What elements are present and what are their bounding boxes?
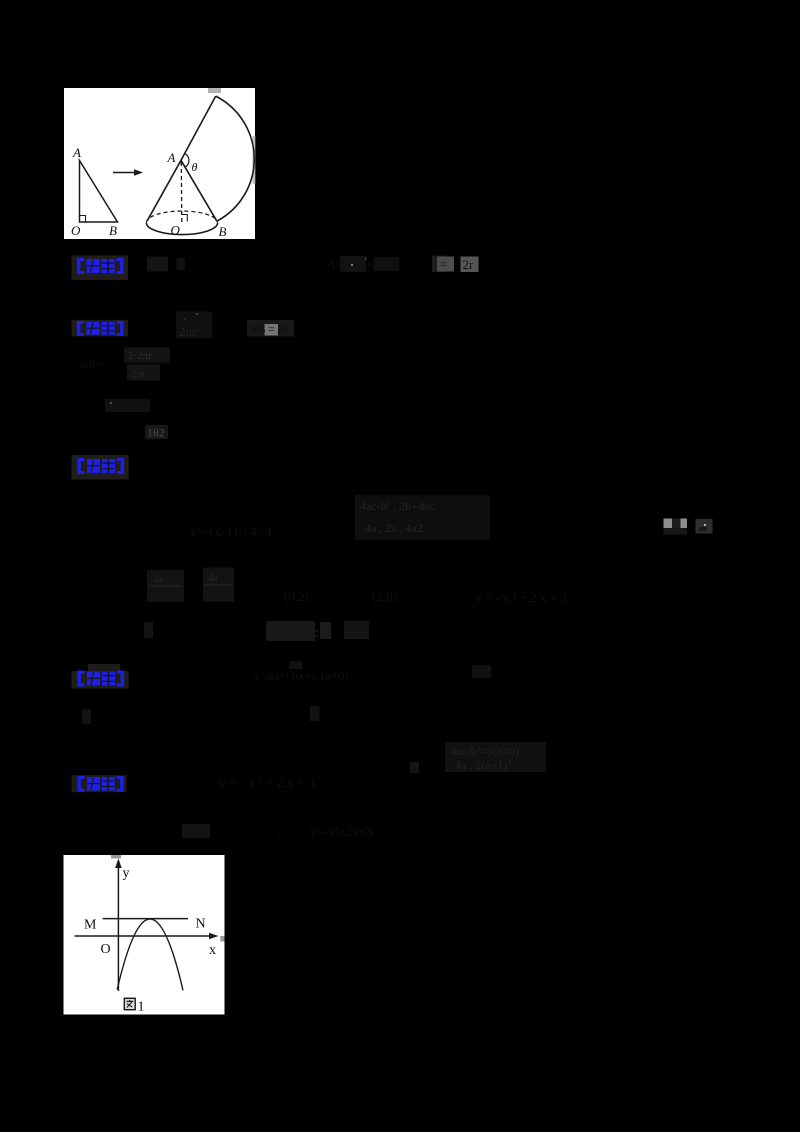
- gray stripe right edge of panel: [252, 136, 255, 184]
- theta angle arc: [185, 154, 189, 168]
- blue tag 3: [72, 455, 129, 480]
- svg-text:θ: θ: [192, 160, 198, 174]
- svg-text:O: O: [71, 223, 81, 238]
- gray smudge top of panel: [208, 88, 221, 93]
- svg-text:2a: 2a: [153, 574, 163, 585]
- svg-text:B: B: [109, 223, 117, 238]
- svg-text:1: 1: [138, 1000, 145, 1015]
- svg-text:y=ax²+bx+c (a≠0): y=ax²+bx+c (a≠0): [254, 668, 349, 683]
- sector arc: [216, 96, 255, 221]
- svg-text:4a , 2a , 4a2: 4a , 2a , 4a2: [365, 521, 423, 535]
- faint row L: [219, 776, 319, 791]
- svg-text:y: y: [123, 866, 130, 881]
- highlighted fragment row B: [247, 320, 294, 337]
- MN line: [103, 918, 188, 920]
- svg-text:y=-(x-1)²+4=3: y=-(x-1)²+4=3: [190, 525, 272, 540]
- svg-text:y=-x²+2x+3: y=-x²+2x+3: [310, 824, 373, 839]
- highlighted formula fragments row A: [351, 256, 479, 273]
- blue tag 5: [72, 775, 127, 792]
- faint text row A: [147, 256, 399, 273]
- faint row F expression: [190, 495, 490, 540]
- arrow: [113, 169, 143, 176]
- svg-text:4ac-b²=3(a≠0): 4ac-b²=3(a≠0): [450, 744, 519, 758]
- svg-text:O: O: [101, 942, 111, 957]
- svg-text:,: ,: [277, 823, 280, 838]
- faint row G: [147, 568, 570, 607]
- svg-text:O: O: [171, 223, 181, 238]
- base ellipse front (solid): [146, 223, 217, 235]
- svg-text:4a: 4a: [208, 573, 218, 584]
- faint row J: [82, 706, 320, 724]
- svg-text:AB = 2r: AB = 2r: [249, 322, 287, 336]
- svg-text:sin =: sin =: [80, 356, 106, 371]
- svg-text:y=-x²+2x+3: y=-x²+2x+3: [475, 591, 570, 606]
- highlighted fragments right of row F: [664, 519, 713, 535]
- faint tall formula row B: [176, 312, 212, 340]
- y axis: [75, 866, 213, 991]
- svg-text:x: x: [209, 943, 216, 958]
- svg-text:(2,0): (2,0): [372, 589, 397, 604]
- cone: [146, 96, 254, 235]
- svg-text:B: B: [219, 224, 227, 239]
- x axis arrowhead: [209, 933, 219, 940]
- base ellipse back (dashed): [146, 211, 217, 223]
- caption tu1: [124, 998, 145, 1015]
- faint row H: [144, 621, 369, 641]
- svg-text::: :: [315, 625, 319, 640]
- small right triangle AOB: [80, 161, 118, 223]
- svg-text:1θ2: 1θ2: [147, 426, 165, 440]
- svg-text:M: M: [84, 918, 97, 933]
- blue tag 2: [72, 320, 129, 337]
- svg-text:A: A: [72, 145, 81, 160]
- svg-text:y=-x²+2x+3: y=-x²+2x+3: [219, 776, 319, 791]
- y axis arrowhead: [115, 859, 122, 869]
- svg-text:(0,2): (0,2): [284, 589, 309, 604]
- svg-text:N: N: [196, 917, 206, 932]
- cone left slant: [147, 160, 181, 221]
- svg-text:A: A: [167, 150, 176, 165]
- dashed axis: [180, 162, 183, 223]
- svg-text:2πr: 2πr: [131, 368, 146, 380]
- svg-text:4a , 2(a+1)²: 4a , 2(a+1)²: [455, 758, 511, 772]
- faint row M: [182, 823, 373, 839]
- faint row I: [254, 661, 491, 683]
- svg-text:2πr: 2πr: [179, 324, 197, 339]
- figure 1 white panel (triangle to cone): [64, 88, 255, 239]
- svg-text:4ac-b² , 2b+4ac: 4ac-b² , 2b+4ac: [360, 499, 435, 513]
- gray smudge right edge of panel 2: [220, 936, 224, 942]
- svg-text:=: =: [440, 257, 447, 272]
- svg-text:2·2πr: 2·2πr: [128, 350, 152, 362]
- blue tag 4: [72, 664, 129, 689]
- gray smudge top of panel 2: [111, 855, 121, 859]
- right-angle mark at O': [182, 215, 188, 222]
- parabola: [117, 919, 183, 990]
- svg-text:2r: 2r: [463, 257, 475, 272]
- faint row K fraction cluster: [410, 742, 546, 773]
- sector radius line up: [181, 96, 216, 160]
- blue tag 1: [72, 256, 129, 281]
- cone right slant / sector radius to B: [181, 160, 217, 221]
- figure 2 white panel (parabola graph): [64, 855, 225, 1015]
- faint working rows C D E: [80, 348, 170, 440]
